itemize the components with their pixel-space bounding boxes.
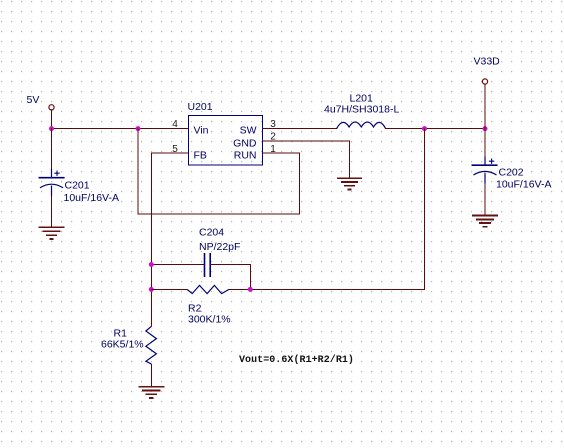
wire FB column to R2 xyxy=(151,288,187,290)
junction C204/R2 right node xyxy=(248,287,253,292)
pin 1 RUN lead xyxy=(263,152,284,154)
wire V33D port to output rail xyxy=(484,84,486,128)
wire R1 bottom lead to ground xyxy=(150,364,152,387)
wire C201 top lead xyxy=(51,129,53,169)
svg-text:U201: U201 xyxy=(188,101,213,113)
ground under R1 xyxy=(138,387,164,398)
svg-text:300K/1%: 300K/1% xyxy=(188,314,231,326)
svg-text:66K5/1%: 66K5/1% xyxy=(101,339,144,351)
svg-text:GND: GND xyxy=(233,137,257,149)
svg-text:C204: C204 xyxy=(199,227,224,239)
wire SW pin to L201 xyxy=(283,128,337,130)
svg-text:NP/22pF: NP/22pF xyxy=(199,241,240,253)
wire C202 bottom lead to ground xyxy=(484,184,486,216)
ground under C202 xyxy=(472,216,498,227)
wire L201 to V33D column xyxy=(385,128,485,130)
wire GND pin to ground xyxy=(283,141,350,178)
resistor R1 xyxy=(146,326,157,364)
wire FB to feedback column xyxy=(151,153,168,326)
wire FB column to C204 xyxy=(151,264,204,266)
op-amp U201 body xyxy=(189,116,263,166)
wire output rail to C202 xyxy=(484,129,486,157)
inductor L201 xyxy=(337,122,386,129)
svg-text:5V: 5V xyxy=(27,94,40,106)
svg-text:FB: FB xyxy=(194,149,207,161)
wire 5V port to input rail xyxy=(51,110,53,129)
capacitor C204 xyxy=(205,253,211,277)
svg-text:4: 4 xyxy=(172,119,178,130)
junction feedback tap xyxy=(422,126,427,131)
resistor R2 xyxy=(187,285,229,293)
svg-text:C201: C201 xyxy=(65,180,90,192)
port V33D xyxy=(482,79,487,84)
ground under C201 xyxy=(39,227,65,239)
junction FB column at R2 row xyxy=(149,287,154,292)
junction V33D column xyxy=(483,126,488,131)
pin 2 GND lead xyxy=(263,140,284,142)
svg-text:Vout=0.6X(R1+R2/R1): Vout=0.6X(R1+R2/R1) xyxy=(239,354,354,366)
svg-text:C202: C202 xyxy=(499,167,524,179)
ground at U201 GND xyxy=(337,178,362,189)
junction at 5V column xyxy=(49,126,54,131)
junction at RUN loop column xyxy=(136,126,141,131)
svg-text:4u7H/SH3018-L: 4u7H/SH3018-L xyxy=(324,104,399,116)
pin 5 FB lead xyxy=(169,152,189,154)
wire RUN enable loop xyxy=(138,129,300,214)
wire C204 right lead down to R2 row xyxy=(210,265,250,290)
svg-text:10uF/16V-A: 10uF/16V-A xyxy=(64,192,119,204)
wire input rail to U201 Vin pin 4 xyxy=(52,128,189,130)
capacitor C202 xyxy=(472,157,498,184)
port 5V xyxy=(49,105,54,110)
svg-text:SW: SW xyxy=(240,125,257,137)
capacitor C201 xyxy=(39,169,65,196)
junction FB column at C204 row xyxy=(149,262,154,267)
svg-text:V33D: V33D xyxy=(474,56,501,68)
wire C201 bottom lead to ground xyxy=(51,196,53,227)
svg-text:RUN: RUN xyxy=(234,149,257,161)
wire R2 to feedback tap column xyxy=(229,129,425,290)
pin 3 SW lead xyxy=(263,128,284,130)
svg-text:Vin: Vin xyxy=(194,125,209,137)
svg-text:10uF/16V-A: 10uF/16V-A xyxy=(496,179,551,191)
